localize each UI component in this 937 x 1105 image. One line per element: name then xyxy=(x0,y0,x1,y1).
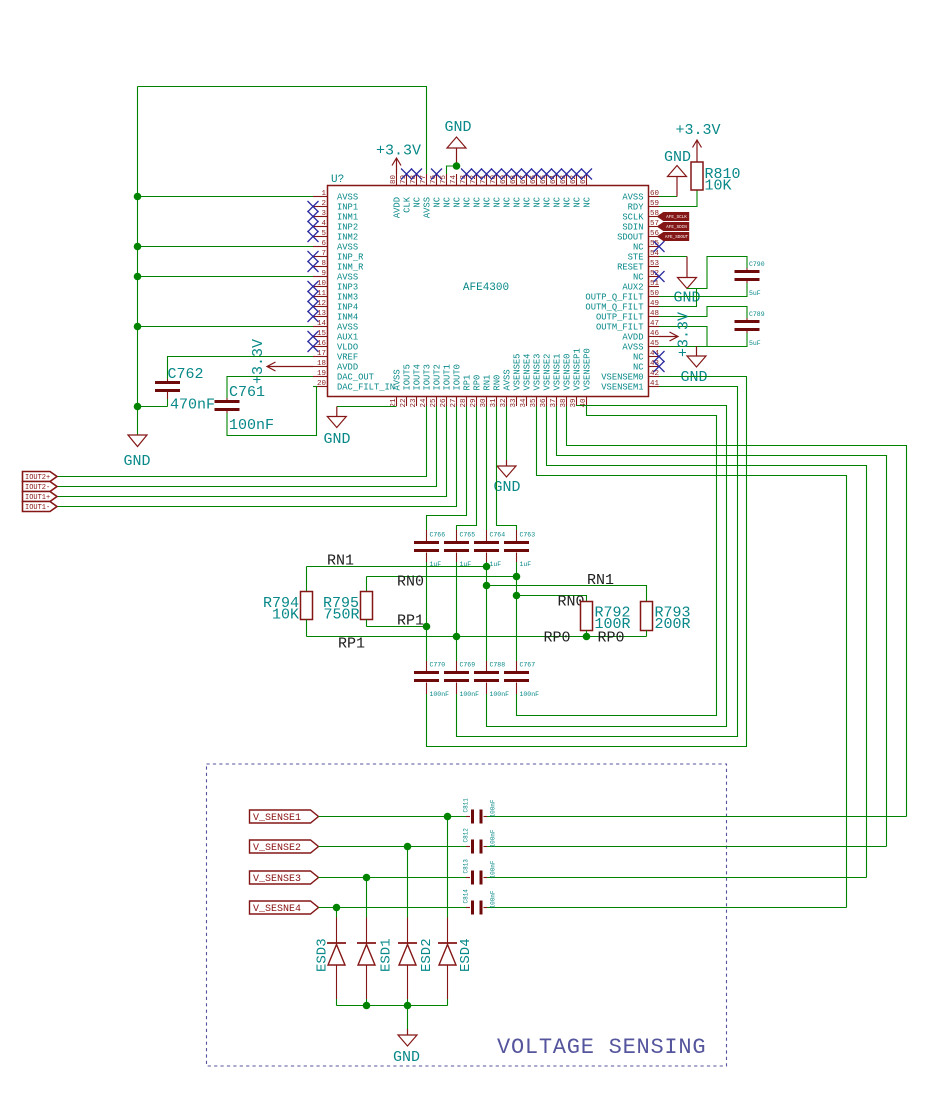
svg-text:C812: C812 xyxy=(463,828,470,843)
svg-text:C761: C761 xyxy=(229,384,265,401)
hierarchical label IOUT1+ xyxy=(23,492,58,503)
svg-text:NC: NC xyxy=(633,362,644,372)
svg-text:RP1: RP1 xyxy=(397,613,424,630)
wire pin30 RN1 to C764 top xyxy=(486,406,488,530)
svg-text:100nF: 100nF xyxy=(490,890,497,908)
svg-text:RP0: RP0 xyxy=(543,630,570,647)
U1 pin 33 (VSENSE5) xyxy=(510,354,523,408)
U1 pin 20 (DAC_FILT_IN) xyxy=(313,380,395,392)
node RP1 (label right) xyxy=(397,613,424,630)
svg-text:SDIN: SDIN xyxy=(622,222,643,232)
junction V_SENSE2/ESD xyxy=(404,843,412,851)
svg-text:NC: NC xyxy=(533,197,543,208)
svg-text:NC: NC xyxy=(543,197,553,208)
wire pin38 VSENSE0 to V_SENSE1 xyxy=(567,406,907,817)
wire pin54 STE to GND xyxy=(659,256,687,258)
U1 pin 60 (AVSS) xyxy=(622,190,659,202)
svg-text:ESD1: ESD1 xyxy=(379,938,395,972)
U1 pin 17 (VREF) xyxy=(313,350,358,362)
power +3.3V at pin 46 (AVDD right) xyxy=(659,312,693,357)
wire column C763 middle xyxy=(516,562,518,661)
U1 pin 75 (NC) xyxy=(440,174,453,208)
svg-text:OUTP_FILT: OUTP_FILT xyxy=(596,312,644,322)
U1 pin 19 (DAC_OUT) xyxy=(313,370,374,382)
capacitor C769 100nF xyxy=(444,661,479,698)
svg-text:AVSS: AVSS xyxy=(503,369,513,390)
svg-text:VSENSE3: VSENSE3 xyxy=(533,354,543,391)
resistor R794 10K xyxy=(263,567,313,637)
capacitor C766 1uF xyxy=(414,530,445,568)
wire net RN0 left xyxy=(367,576,517,578)
svg-text:75: 75 xyxy=(440,174,448,184)
svg-text:SDOUT: SDOUT xyxy=(617,232,643,242)
ground GND at pin 60 xyxy=(664,149,691,197)
U1 pin 29 (RP0) xyxy=(470,375,483,408)
node RN1 right (label) xyxy=(587,572,614,589)
wire pin39 VSENSEP1 to C788 bottom xyxy=(487,406,727,727)
wire pin 27 to label IOUT1- xyxy=(57,406,457,507)
svg-text:100nF: 100nF xyxy=(490,799,497,817)
svg-text:NC: NC xyxy=(503,197,513,208)
U1 pin 59 (RDY) xyxy=(628,200,659,212)
svg-text:50: 50 xyxy=(650,290,660,298)
svg-text:750R: 750R xyxy=(323,607,359,624)
U1 pin 7 (INP_R) xyxy=(308,250,365,262)
node RN0 right (label) xyxy=(558,594,585,611)
svg-text:NC: NC xyxy=(573,197,583,208)
U1 pin 2 (INP1) xyxy=(308,200,359,212)
svg-text:100nF: 100nF xyxy=(490,691,510,698)
U1 pin 4 (INP2) xyxy=(308,220,359,232)
svg-text:AVSS: AVSS xyxy=(337,322,358,332)
svg-text:AUX1: AUX1 xyxy=(337,332,358,342)
svg-text:C789: C789 xyxy=(749,311,765,318)
U1 pin 56 (SDOUT) xyxy=(617,230,659,242)
svg-text:100nF: 100nF xyxy=(460,691,480,698)
node RN1 (label) xyxy=(327,553,354,570)
svg-text:AVSS: AVSS xyxy=(337,192,358,202)
wire ESD4 column xyxy=(447,817,449,1006)
svg-text:NC: NC xyxy=(453,197,463,208)
svg-text:V_SENSE3: V_SENSE3 xyxy=(253,874,301,885)
svg-text:STE: STE xyxy=(628,252,644,262)
svg-text:NC: NC xyxy=(473,197,483,208)
svg-text:VSENSEM0: VSENSEM0 xyxy=(601,372,643,382)
capacitor C770 100nF xyxy=(414,661,449,698)
wire AVSS bus top loop to pin 77 xyxy=(138,87,427,175)
svg-text:RN0: RN0 xyxy=(397,574,424,591)
U1 pin 58 (SCLK) xyxy=(622,210,659,222)
U1 pin 64 (NC) xyxy=(550,169,563,208)
op-amp U1 AFE4300 body xyxy=(328,174,649,397)
label ESD4 xyxy=(458,938,474,972)
svg-text:GND: GND xyxy=(680,369,707,386)
wire AVSS bus to pin 1 xyxy=(138,196,314,198)
svg-text:33: 33 xyxy=(510,398,518,408)
junction V_SENSE3/ESD xyxy=(363,874,371,882)
U1 pin 6 (AVSS) xyxy=(313,240,358,252)
wire pin60 AVSS to GND xyxy=(659,196,677,198)
U1 pin 72 (NC) xyxy=(470,169,483,208)
svg-text:RP1: RP1 xyxy=(463,375,473,391)
svg-text:+3.3V: +3.3V xyxy=(676,312,693,357)
U1 pin 39 (VSENSEP1) xyxy=(570,348,583,407)
svg-text:10K: 10K xyxy=(705,178,732,195)
junction RN0/C763 xyxy=(513,573,521,581)
U1 pin 30 (RN1) xyxy=(480,375,493,408)
svg-text:NC: NC xyxy=(523,197,533,208)
svg-text:+3.3V: +3.3V xyxy=(376,143,421,160)
U1 pin 11 (INM3) xyxy=(308,290,359,302)
svg-text:22: 22 xyxy=(400,398,408,407)
power +3.3V at pin 18 (AVDD left) xyxy=(250,339,313,384)
wire VREF pin17 to C762 xyxy=(168,357,314,380)
wire pin29 RP0 to C765 top xyxy=(457,406,477,530)
wire pin41 VSENSEM1 to C769 bottom xyxy=(457,387,738,737)
U1 pin 38 (VSENSE0) xyxy=(560,354,573,408)
wire net RN0 right to R792 xyxy=(517,596,587,602)
ground GND left bus xyxy=(123,435,150,470)
ground GND at pin 32 xyxy=(493,460,520,496)
svg-text:C811: C811 xyxy=(463,798,470,813)
svg-text:AFE4300: AFE4300 xyxy=(463,282,509,294)
svg-text:IOUT1: IOUT1 xyxy=(443,364,453,390)
svg-text:6: 6 xyxy=(321,240,326,248)
capacitor C790 5uF xyxy=(735,261,765,297)
diode ESD2 xyxy=(398,943,417,965)
voltage sensing dashed box xyxy=(207,764,727,1066)
U1 pin 10 (INP3) xyxy=(308,280,359,292)
U1 pin 71 (NC) xyxy=(480,169,493,208)
wire pin28 RP1 to C766 top xyxy=(427,406,467,530)
hierarchical label V_SENSE2 xyxy=(250,840,319,854)
wire GND jog to pin 75 xyxy=(447,166,457,174)
svg-text:1uF: 1uF xyxy=(520,561,532,568)
svg-text:GND: GND xyxy=(123,453,150,470)
capacitor C765 1uF xyxy=(444,530,475,568)
wire AVSS bus vertical xyxy=(137,87,139,436)
svg-text:GND: GND xyxy=(664,149,691,166)
capacitor C762 470nF xyxy=(155,366,215,414)
junction V_SESNE4/ESD xyxy=(333,904,341,912)
junction RN0 right xyxy=(513,592,521,600)
U1 pin 77 (AVSS) xyxy=(420,174,433,218)
ground GND at pins 74/75 (top) xyxy=(444,119,471,166)
U1 pin 25 (IOUT2) xyxy=(430,364,443,407)
svg-text:53: 53 xyxy=(650,260,660,268)
U1 pin 49 (OUTM_Q_FILT) xyxy=(585,300,659,312)
svg-text:49: 49 xyxy=(650,300,659,308)
U1 pin 26 (IOUT1) xyxy=(440,364,453,407)
wire pin32 AVSS down xyxy=(506,406,508,460)
svg-text:470nF: 470nF xyxy=(170,397,215,414)
svg-text:NC: NC xyxy=(563,197,573,208)
svg-text:DAC_FILT_IN: DAC_FILT_IN xyxy=(337,382,395,392)
U1 pin 34 (VSENSE4) xyxy=(520,354,533,408)
diode ESD4 xyxy=(438,943,457,965)
junction bus pin 1 xyxy=(134,193,142,201)
svg-text:8: 8 xyxy=(321,260,326,268)
svg-text:1: 1 xyxy=(321,190,326,198)
svg-text:80: 80 xyxy=(390,174,398,184)
wire V_SESNE4 line xyxy=(319,907,847,909)
svg-text:NC: NC xyxy=(413,197,423,208)
U1 pin 5 (INM2) xyxy=(308,230,359,242)
svg-text:5uF: 5uF xyxy=(749,340,761,347)
wire V_SENSE3 line xyxy=(319,877,867,879)
wire ESD common rail xyxy=(337,1005,448,1007)
label ESD2 xyxy=(419,938,435,972)
svg-text:AUX2: AUX2 xyxy=(622,282,643,292)
VOLTAGE SENSING title xyxy=(497,1035,706,1060)
U1 pin 54 (STE) xyxy=(628,250,660,262)
wire pin37 VSENSE1 to V_SENSE2 xyxy=(557,406,887,847)
svg-text:RN1: RN1 xyxy=(587,572,614,589)
svg-text:VOLTAGE SENSING: VOLTAGE SENSING xyxy=(497,1035,706,1060)
U1 pin 46 (AVDD) xyxy=(622,330,659,342)
U1 pin 80 (AVDD) xyxy=(390,174,403,218)
svg-text:GND: GND xyxy=(393,1049,420,1066)
U1 pin 28 (RP1) xyxy=(460,375,473,408)
node RP1 (label long line) xyxy=(338,636,365,653)
power +3.3V at R810 xyxy=(675,122,720,162)
svg-text:39: 39 xyxy=(570,398,578,407)
ground GND at pin 21 xyxy=(323,407,350,449)
svg-text:INP4: INP4 xyxy=(337,302,358,312)
svg-text:C769: C769 xyxy=(460,662,476,669)
svg-text:100R: 100R xyxy=(595,616,631,633)
svg-text:59: 59 xyxy=(650,200,659,208)
wire C761 bottom to DAC_FILT_IN pin20 xyxy=(227,387,317,436)
junction RN1/C764 xyxy=(483,563,491,571)
svg-text:VSENSE5: VSENSE5 xyxy=(513,354,523,391)
svg-text:200R: 200R xyxy=(655,616,691,633)
U1 pin 9 (AVSS) xyxy=(313,270,358,282)
svg-text:V_SENSE1: V_SENSE1 xyxy=(253,813,301,824)
U1 pin 1 (AVSS) xyxy=(313,190,358,202)
svg-text:RN1: RN1 xyxy=(327,553,354,570)
junction rail/ESD2 xyxy=(404,1002,412,1010)
svg-text:NC: NC xyxy=(433,197,443,208)
capacitor C764 1uF xyxy=(474,530,505,568)
U1 pin 42 (VSENSEM0) xyxy=(601,370,659,382)
U1 pin 52 (NC) xyxy=(633,270,665,282)
svg-text:1uF: 1uF xyxy=(490,561,502,568)
wire AVSS bus to pin 9 xyxy=(138,276,314,278)
svg-text:AVSS: AVSS xyxy=(393,369,403,390)
svg-text:20: 20 xyxy=(317,380,327,388)
svg-text:74: 74 xyxy=(450,174,458,184)
svg-text:23: 23 xyxy=(410,398,418,408)
svg-text:9: 9 xyxy=(321,270,326,278)
svg-text:RESET: RESET xyxy=(617,262,643,272)
svg-text:19: 19 xyxy=(317,370,326,378)
svg-text:C814: C814 xyxy=(463,889,470,904)
svg-text:RN1: RN1 xyxy=(483,375,493,391)
svg-text:RP0: RP0 xyxy=(473,375,483,391)
resistor R810 10K xyxy=(691,162,741,195)
wire net RP1 upper (R795 bottom to C766) xyxy=(367,626,427,628)
svg-text:AVSS: AVSS xyxy=(337,272,358,282)
svg-text:48: 48 xyxy=(650,310,659,318)
label ESD1 xyxy=(379,938,395,972)
svg-text:2: 2 xyxy=(321,200,326,208)
svg-text:INP_R: INP_R xyxy=(337,252,364,262)
U1 pin 50 (OUTP_Q_FILT) xyxy=(585,290,659,302)
svg-text:NC: NC xyxy=(633,272,644,282)
svg-text:60: 60 xyxy=(650,190,660,198)
svg-text:+3.3V: +3.3V xyxy=(250,339,267,384)
U1 pin 73 (NC) xyxy=(460,169,473,208)
U1 pin 16 (VLDO) xyxy=(308,340,359,352)
svg-text:NC: NC xyxy=(463,197,473,208)
U1 pin 21 (AVSS) xyxy=(390,369,403,407)
junction bus pin 9 xyxy=(134,273,142,281)
wire net RP1/RP0 long xyxy=(307,636,647,638)
svg-text:7: 7 xyxy=(321,250,326,258)
ground GND at pin 45 xyxy=(680,346,707,386)
U1 pin 62 (NC) xyxy=(570,169,583,208)
U1 pin 41 (VSENSEM1) xyxy=(601,380,659,392)
svg-text:42: 42 xyxy=(650,370,659,378)
svg-text:OUTM_FILT: OUTM_FILT xyxy=(596,322,644,332)
svg-text:41: 41 xyxy=(650,380,660,388)
junction V_SENSE1/ESD xyxy=(444,813,452,821)
svg-text:IOUT3: IOUT3 xyxy=(423,364,433,390)
hierarchical label V_SESNE4 xyxy=(250,901,319,915)
svg-text:GND: GND xyxy=(444,119,471,136)
svg-text:NC: NC xyxy=(483,197,493,208)
wire pin49 OUTM_Q_FILT to GND net xyxy=(659,289,697,307)
label ESD3 xyxy=(315,938,331,972)
U1 pin 79 (CLK) xyxy=(400,169,413,213)
hierarchical label V_SENSE3 xyxy=(250,871,319,885)
hierarchical label IOUT1- xyxy=(23,502,58,513)
svg-text:NC: NC xyxy=(583,197,593,208)
U1 pin 15 (AUX1) xyxy=(308,330,359,342)
svg-text:34: 34 xyxy=(520,398,528,408)
capacitor C812 100nF xyxy=(463,828,497,854)
wire column C765 middle xyxy=(456,562,458,661)
U1 pin 69 (NC) xyxy=(500,169,513,208)
capacitor C763 1uF xyxy=(504,530,535,568)
svg-text:C788: C788 xyxy=(490,662,506,669)
ground GND voltage sensing xyxy=(393,1029,420,1066)
U1 pin 23 (IOUT4) xyxy=(410,364,423,407)
svg-text:C765: C765 xyxy=(460,532,476,539)
svg-text:51: 51 xyxy=(650,280,660,288)
U1 pin 55 (NC) xyxy=(633,240,665,252)
U1 pin 57 (SDIN) xyxy=(622,220,659,232)
svg-text:46: 46 xyxy=(650,330,660,338)
svg-text:AFE_SDIN: AFE_SDIN xyxy=(666,225,687,230)
svg-text:VSENSEP1: VSENSEP1 xyxy=(573,348,583,390)
svg-text:GND: GND xyxy=(323,431,350,448)
svg-text:V_SENSE2: V_SENSE2 xyxy=(253,843,301,854)
svg-text:100nF: 100nF xyxy=(229,417,274,434)
svg-text:100nF: 100nF xyxy=(490,860,497,878)
svg-text:ESD4: ESD4 xyxy=(458,938,474,972)
junction RP1/C766 xyxy=(423,623,431,631)
svg-text:NC: NC xyxy=(493,197,503,208)
junction bus pin 6 xyxy=(134,243,142,251)
junction bus bottom xyxy=(134,403,142,411)
node RP0 (label right) xyxy=(598,630,625,647)
svg-text:VSENSE0: VSENSE0 xyxy=(563,354,573,391)
svg-text:RN0: RN0 xyxy=(493,375,503,391)
svg-text:INM_R: INM_R xyxy=(337,262,364,272)
svg-text:AVSS: AVSS xyxy=(622,342,643,352)
svg-text:AVDD: AVDD xyxy=(622,332,643,342)
wire V_SENSE1 line xyxy=(319,816,907,818)
U1 pin 63 (NC) xyxy=(560,169,573,208)
svg-text:VSENSEP0: VSENSEP0 xyxy=(583,348,593,390)
svg-text:IOUT5: IOUT5 xyxy=(403,364,413,390)
U1 pin 37 (VSENSE1) xyxy=(550,354,563,408)
svg-text:INM4: INM4 xyxy=(337,312,358,322)
resistor R793 200R xyxy=(641,602,691,637)
wire pin59 RDY to R810 xyxy=(659,190,697,207)
svg-text:3: 3 xyxy=(321,210,326,218)
svg-text:NC: NC xyxy=(633,352,644,362)
svg-text:+3.3V: +3.3V xyxy=(675,122,720,139)
power +3.3V at pin 80 xyxy=(376,143,421,175)
svg-text:C813: C813 xyxy=(463,859,470,874)
wire pin21 AVSS to GND xyxy=(337,406,397,408)
resistor R792 100R xyxy=(581,602,631,637)
svg-text:NC: NC xyxy=(633,242,644,252)
wire bus to C762 bottom xyxy=(138,406,168,408)
svg-text:NC: NC xyxy=(443,197,453,208)
capacitor C767 100nF xyxy=(504,661,539,698)
U1 pin 48 (OUTP_FILT) xyxy=(596,310,659,322)
svg-text:ESD3: ESD3 xyxy=(315,938,331,972)
svg-text:18: 18 xyxy=(317,360,326,368)
wire pin36 VSENSE2 to V_SENSE3 xyxy=(547,406,867,878)
svg-text:AVSS: AVSS xyxy=(622,192,643,202)
ground GND at pin 54 (STE) xyxy=(673,257,700,307)
svg-text:ESD2: ESD2 xyxy=(419,938,435,972)
svg-text:VSENSEM1: VSENSEM1 xyxy=(601,382,643,392)
hierarchical label AFE_SCLK (pin 58) xyxy=(658,213,689,221)
capacitor C811 100nF xyxy=(463,798,497,824)
svg-text:AVSS: AVSS xyxy=(337,242,358,252)
diode ESD1 xyxy=(357,943,376,965)
svg-text:77: 77 xyxy=(420,175,428,184)
wire pin50 OUTP_Q_FILT to C790 bottom xyxy=(659,283,747,297)
wire pin42 VSENSEM0 to C770 bottom xyxy=(427,377,747,747)
svg-text:VSENSE4: VSENSE4 xyxy=(523,354,533,391)
U1 pin 53 (RESET) xyxy=(617,260,659,272)
svg-text:SCLK: SCLK xyxy=(622,212,644,222)
U1 pin 32 (AVSS) xyxy=(500,369,513,407)
U1 pin 47 (OUTM_FILT) xyxy=(596,320,659,332)
svg-text:INM1: INM1 xyxy=(337,212,358,222)
U1 pin 40 (VSENSEP0) xyxy=(580,348,593,407)
svg-text:NC: NC xyxy=(513,197,523,208)
U1 pin 13 (INM4) xyxy=(308,310,359,322)
U1 pin 70 (NC) xyxy=(490,169,503,208)
svg-text:VREF: VREF xyxy=(337,352,358,362)
wire STE/GND net to C790 top xyxy=(687,257,747,289)
svg-text:IOUT2: IOUT2 xyxy=(433,364,443,390)
svg-text:V_SESNE4: V_SESNE4 xyxy=(253,904,301,915)
U1 pin 8 (INM_R) xyxy=(308,260,365,272)
capacitor C813 100nF xyxy=(463,859,497,885)
U1 pin 45 (AVSS) xyxy=(622,340,659,352)
junction rail/ESD1 xyxy=(363,1002,371,1010)
wire column C766 middle xyxy=(426,562,428,661)
